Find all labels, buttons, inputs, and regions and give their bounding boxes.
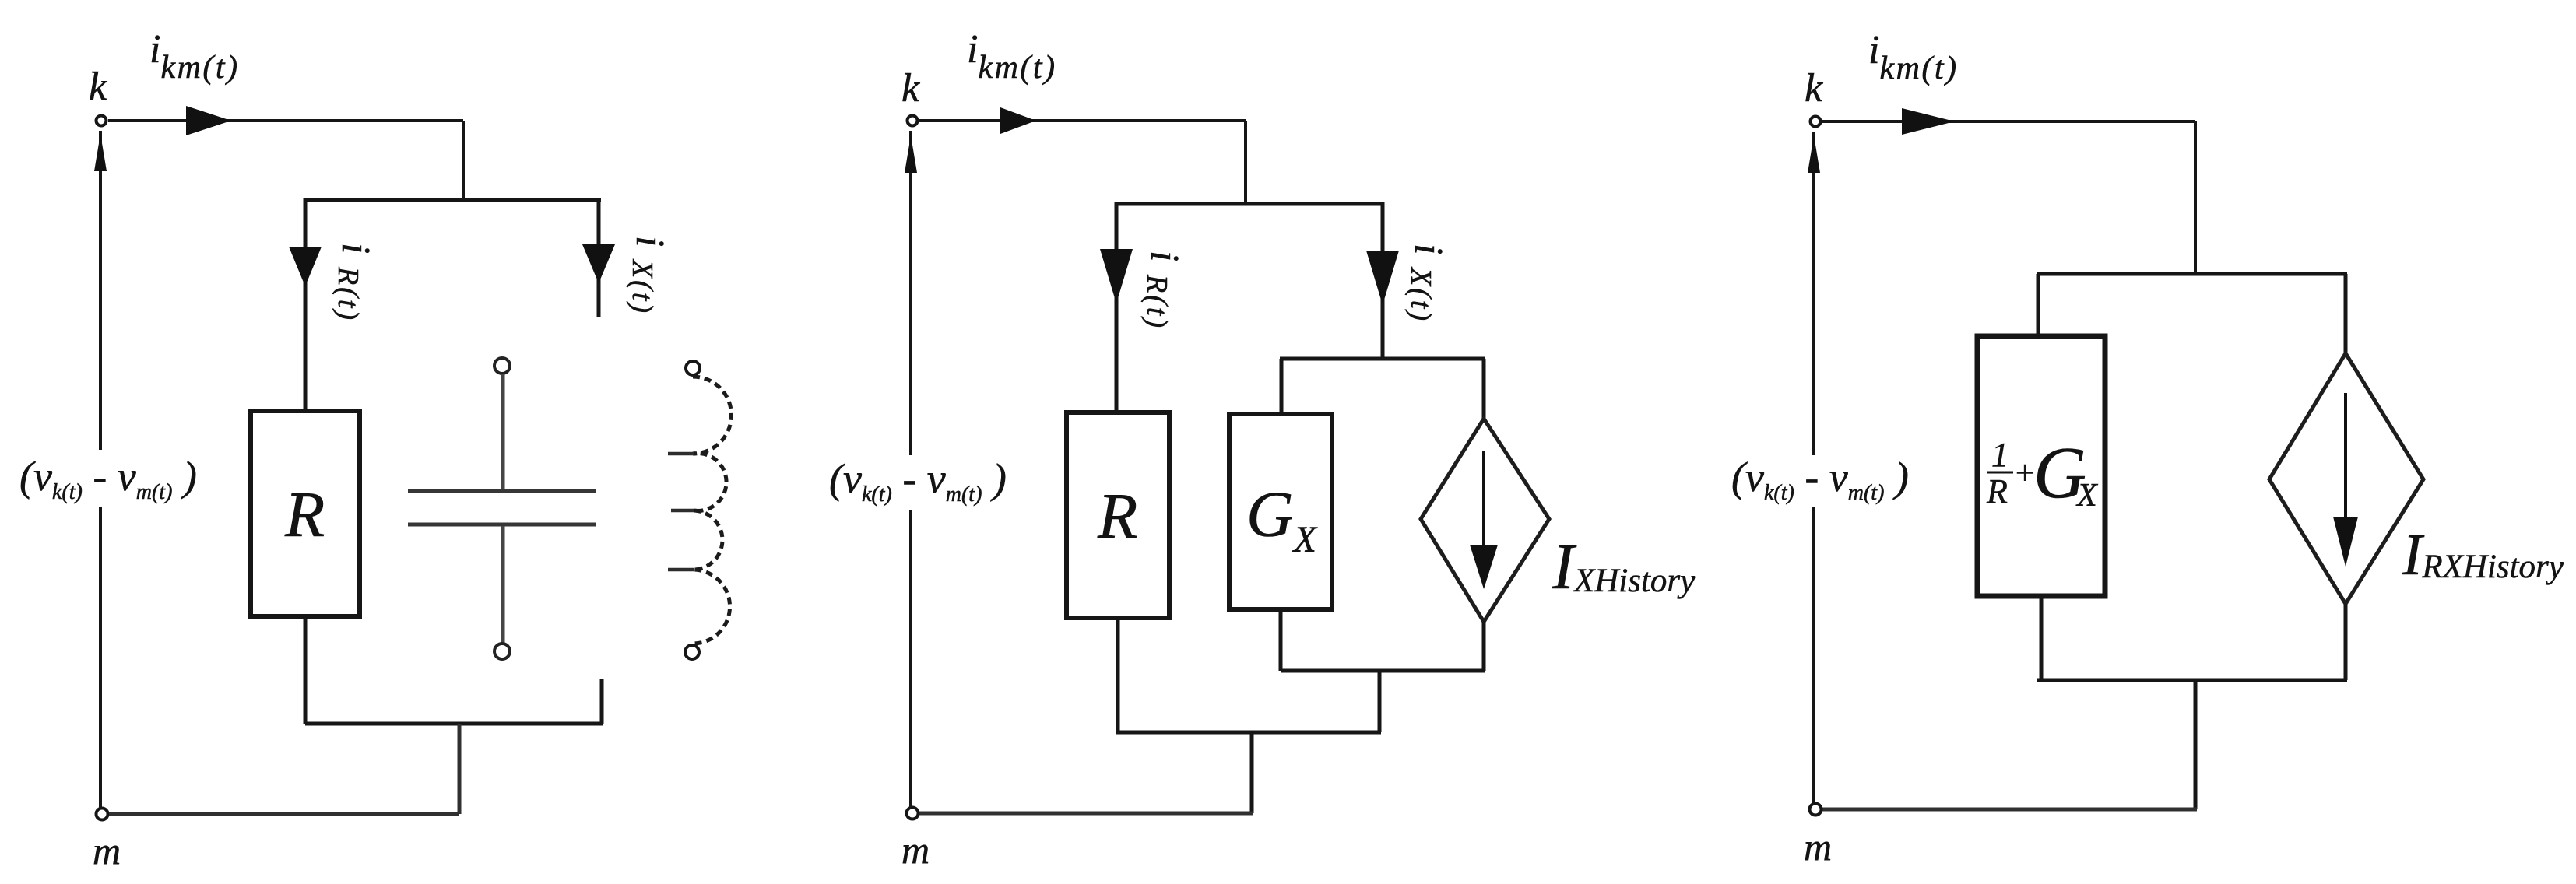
wire corner down [1244, 121, 1247, 204]
svg-text:R: R [1097, 480, 1137, 552]
current arrow i_km [1902, 108, 1955, 135]
inductor X top terminal [686, 361, 700, 375]
wire third bracket [1281, 669, 1485, 673]
svg-text:m: m [93, 829, 121, 872]
left rail upper segment [1812, 132, 1815, 455]
wire bottom from m [109, 812, 459, 816]
wire drop to m line [1250, 732, 1254, 813]
current arrow i_X [1366, 251, 1399, 305]
inductor coil [693, 377, 732, 644]
wire fourth bracket [1116, 731, 1381, 735]
svg-text:k: k [1805, 66, 1823, 110]
inductor coil cusp ticks [668, 454, 694, 570]
left rail upper segment [99, 131, 102, 450]
wire corner down [462, 121, 465, 200]
wire bottom from m [919, 812, 1253, 816]
wire bottom from m [1822, 808, 2197, 812]
source arrow shaft [2344, 393, 2347, 521]
wire top bracket [304, 198, 601, 202]
svg-text:R: R [284, 479, 325, 551]
svg-text:1: 1 [1991, 436, 2008, 474]
wire X branch [597, 200, 601, 317]
wire bottom bracket [2037, 679, 2347, 682]
svg-text:m: m [901, 828, 930, 872]
conductance box Gx [1229, 414, 1332, 609]
wire R bottom lead [304, 616, 308, 724]
current arrow i_km [186, 106, 231, 135]
capacitor top lead [501, 374, 505, 489]
wire box top lead [2037, 274, 2040, 337]
capacitor bottom plate [408, 523, 596, 527]
fraction bar [1987, 472, 2013, 474]
dependent source diamond [1421, 419, 1549, 622]
svg-text:m: m [1804, 825, 1832, 868]
source arrow shaft [1482, 451, 1485, 549]
wire diamond top lead [2344, 274, 2348, 355]
left rail lower segment [1812, 507, 1815, 803]
wire right stub up [600, 679, 604, 724]
wire top bracket [1115, 202, 1384, 206]
wire drop to fourth bracket [1378, 671, 1382, 732]
left rail lower segment [99, 507, 102, 808]
current arrow i_R [1100, 249, 1133, 303]
node m (right circuit) [1810, 804, 1822, 816]
source arrow head [2333, 517, 2358, 567]
wire box bottom lead [2040, 596, 2044, 680]
current arrow i_km [1000, 107, 1036, 134]
capacitor bottom lead [501, 526, 505, 644]
wire Gx bottom lead [1279, 609, 1283, 671]
current arrow i_X [582, 244, 615, 283]
node k (right circuit) [1811, 117, 1821, 127]
resistor R [251, 411, 360, 616]
node k (left circuit) [97, 116, 107, 126]
equivalent conductance box [1977, 336, 2105, 596]
capacitor C bottom terminal [494, 644, 510, 659]
node k (middle circuit) [908, 116, 918, 126]
svg-text:k: k [901, 66, 920, 110]
wire Gx top lead [1280, 359, 1284, 415]
wire R branch [304, 198, 308, 412]
source arrow head [1470, 545, 1498, 589]
resistor R [1067, 412, 1169, 618]
node m (middle circuit) [907, 808, 919, 819]
wire R bottom lead [1116, 618, 1120, 732]
wire X branch [1381, 202, 1385, 359]
left rail lower segment [909, 510, 912, 807]
capacitor C top terminal [494, 358, 510, 374]
left rail upper segment [909, 131, 912, 455]
node m (left circuit) [97, 809, 108, 820]
wire bottom riser [458, 724, 462, 814]
wire drop to m line [2194, 680, 2198, 809]
wire k to top corner [108, 119, 463, 122]
rail arrow up [94, 134, 107, 171]
wire bottom bracket [305, 722, 603, 726]
svg-text:X: X [2075, 478, 2099, 514]
wire k to top corner [919, 119, 1246, 122]
rail arrow up [905, 135, 917, 173]
dependent source diamond [2269, 353, 2423, 604]
wire k to top corner [1822, 120, 2195, 123]
wire second bracket [1280, 357, 1485, 361]
wire top bracket [2037, 272, 2347, 276]
wire diamond bottom lead [2344, 604, 2348, 680]
rail arrow up [1808, 135, 1820, 173]
wire diamond bottom lead [1482, 622, 1486, 671]
inductor X bottom terminal [685, 645, 699, 659]
capacitor top plate [408, 489, 596, 493]
wire R branch [1115, 202, 1119, 413]
wire diamond top lead [1482, 359, 1486, 420]
current arrow i_R [289, 247, 322, 286]
svg-text:R: R [1986, 472, 2008, 510]
svg-text:k: k [89, 65, 107, 109]
wire corner down [2194, 121, 2197, 274]
